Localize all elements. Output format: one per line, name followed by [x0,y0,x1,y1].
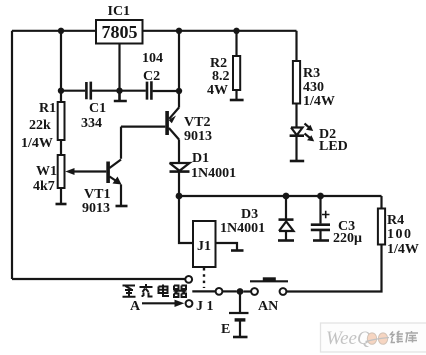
node junction rail2 x179 [176,193,183,200]
wire J1 coil left [179,196,193,243]
svg-text:C1: C1 [89,101,106,116]
dashed link J1 [203,268,205,288]
wire VT1 emitter [120,185,122,206]
capacitor C2 [147,81,151,100]
wire VT2 collector rail drop [178,31,180,108]
wire W1 bottom [60,188,62,203]
svg-text:104: 104 [142,51,163,66]
svg-text:22k: 22k [29,118,51,133]
svg-text:VT2: VT2 [184,115,210,130]
svg-text:VT1: VT1 [84,187,110,202]
wire VT1 collector to VT2 base [121,127,165,159]
svg-text:100: 100 [387,227,413,242]
LED D2 [290,124,315,162]
svg-text:W1: W1 [36,164,57,179]
node junction top x236.5 [233,28,239,34]
node junction top x179 [176,28,182,34]
wire R1 branch [60,31,62,102]
relay contact upper terminal [185,276,192,283]
wire rail2 [179,195,382,197]
svg-text:R1: R1 [39,101,56,116]
contact lower terminal [186,300,193,307]
wire C2 to x179 [153,90,179,92]
capacitor C3 [311,196,330,241]
cap row wire left [61,90,85,92]
diode D3 [278,196,294,241]
wire IC1 ground pin [118,44,120,91]
node junction rail2 x320.5 [317,193,324,200]
pushbutton AN [250,277,288,295]
qi [174,286,187,298]
svg-text:7805: 7805 [102,22,138,42]
svg-text:R3: R3 [303,66,320,81]
svg-text:220μ: 220μ [333,231,362,246]
svg-text:1N4001: 1N4001 [220,221,265,236]
wire R4 top [380,196,382,209]
wire R1 to W1 [60,140,62,155]
svg-text:WeeQ: WeeQ [326,328,371,349]
node junction top x61 [58,28,64,34]
wire bottom-left [12,278,185,280]
wire C1 to ground node [92,90,120,92]
ground below IC1 [114,91,127,101]
terminal W1 bottom [56,203,67,206]
wire top rail right [143,30,297,32]
IC1 7805 regulator box [96,20,143,44]
resistor R3 [293,31,300,127]
svg-text:A: A [130,299,141,314]
svg-text:9013: 9013 [82,201,110,216]
svg-text:AN: AN [258,299,278,314]
relay contact arm [192,290,215,292]
diode D1 [170,163,190,172]
node junction cap row x61 [58,88,64,94]
potentiometer W1 [58,155,65,188]
svg-text:R4: R4 [387,213,404,228]
svg-text:1/4W: 1/4W [21,136,53,151]
svg-text:D3: D3 [241,207,258,222]
svg-text:D1: D1 [192,151,209,166]
svg-text:IC1: IC1 [108,4,131,19]
svg-text:J 1: J 1 [196,299,214,314]
chong [140,284,153,297]
capacitor C1 [86,82,90,100]
svg-text:E: E [221,322,230,337]
wire node to C2 [120,90,146,92]
svg-text:J1: J1 [197,239,211,254]
watermark box [321,323,426,352]
wire J1 coil right [216,243,238,250]
svg-text:4W: 4W [207,83,228,98]
svg-text:4k7: 4k7 [33,179,55,194]
node junction rail2 x286 [283,193,290,200]
svg-text:430: 430 [303,80,324,95]
terminal J1 right [231,249,244,252]
wire top rail left [12,30,96,32]
svg-text:8.2: 8.2 [212,69,230,84]
svg-text:1/4W: 1/4W [387,242,419,257]
transistor VT1 [106,160,121,185]
svg-text:9013: 9013 [184,129,212,144]
transistor VT2 [165,108,179,140]
arrow A input [142,302,176,304]
svg-text:334: 334 [81,116,102,131]
node battery junction [237,288,244,295]
wire battery node to AN [243,290,251,292]
label to-charger (Chinese) [123,284,187,297]
terminal VT1 emitter [116,205,128,208]
svg-text:1/4W: 1/4W [303,94,335,109]
weiku gray [391,331,419,343]
resistor R2 [230,31,244,100]
relay coil J1 [193,221,216,267]
wire D1 to rail2 [178,172,180,196]
wire left rail [11,31,13,279]
dian [159,285,170,297]
svg-text:1N4001: 1N4001 [191,166,236,181]
svg-text:C2: C2 [143,69,160,84]
node junction cap row x119.5 [116,88,122,94]
relay contact pivot terminal [216,288,223,295]
zhi [123,286,136,297]
node junction cap row x179 [176,88,182,94]
wire R4 bottom [287,245,382,292]
wiper arrow of W1 [73,170,106,172]
svg-text:LED: LED [319,139,348,154]
wire pivot to battery node [222,290,236,292]
resistor R4 [378,209,385,245]
battery E [229,292,249,338]
resistor R1 [58,102,65,140]
wire VT2 emitter to D1 [178,140,180,164]
